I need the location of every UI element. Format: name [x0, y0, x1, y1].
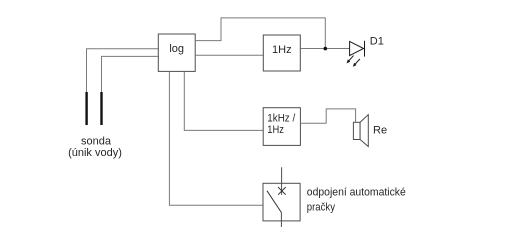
- svg-text:1Hz: 1Hz: [272, 44, 292, 56]
- switch S1 lever: [267, 191, 281, 213]
- wire log output to 1Hz block: [195, 54, 263, 56]
- block 1Hz U2: [263, 35, 300, 71]
- node A junction dot: [324, 47, 328, 51]
- LED D1: [347, 41, 365, 67]
- switch S1 top lead: [281, 167, 283, 195]
- block log U1: [158, 34, 195, 71]
- electrode E2 (sonda bar right): [100, 92, 102, 125]
- label 1kHz / 1Hz: [267, 113, 296, 136]
- svg-text:1kHz /: 1kHz /: [267, 113, 296, 125]
- svg-text:pračky: pračky: [307, 201, 336, 213]
- switch S1 contact cross: [278, 187, 286, 195]
- wire 1Hz output to LED D1: [300, 48, 349, 50]
- svg-text:log: log: [169, 43, 184, 55]
- wire from electrode E2 to log input: [102, 56, 159, 92]
- label odpojení automatické pračky: [307, 187, 406, 214]
- svg-text:odpojení automatické: odpojení automatické: [307, 187, 406, 199]
- wire log bottom to 1kHz block: [184, 71, 263, 130]
- svg-text:sonda: sonda: [81, 135, 112, 147]
- svg-text:(únik vody): (únik vody): [68, 147, 122, 159]
- block 1kHz/1Hz U3: [263, 108, 300, 146]
- speaker Re: [353, 115, 368, 147]
- svg-text:1Hz: 1Hz: [267, 124, 284, 136]
- wire 1kHz output to speaker Re: [300, 109, 355, 123]
- label sonda (únik vody): [68, 135, 122, 159]
- wire log output top to node A: [195, 18, 325, 49]
- svg-text:D1: D1: [370, 36, 384, 48]
- wire log bottom to switch row: [169, 71, 263, 205]
- svg-text:Re: Re: [373, 124, 387, 136]
- switch S1 box: [263, 183, 300, 221]
- electrode E1 (sonda bar left): [85, 92, 87, 125]
- wire from electrode E1 to log input: [87, 49, 159, 92]
- switch S1 bottom lead: [280, 213, 282, 228]
